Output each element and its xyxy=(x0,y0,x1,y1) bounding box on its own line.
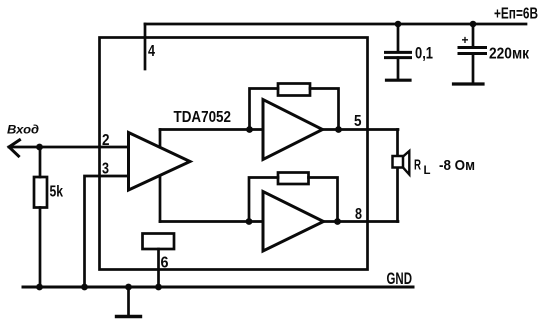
svg-text:4: 4 xyxy=(148,43,155,60)
svg-text:220мк: 220мк xyxy=(489,45,530,62)
pin 2 label xyxy=(102,132,110,149)
capacitor C2 ground bar xyxy=(454,82,484,85)
label 0,1 xyxy=(415,44,433,62)
capacitor C2 220uF lead xyxy=(472,24,475,47)
label TDA7052 xyxy=(174,109,232,126)
node rail junction R1 xyxy=(36,284,43,291)
pin 6 label xyxy=(161,255,169,272)
capacitor C2 plus sign xyxy=(462,33,469,47)
label 220mk xyxy=(489,45,530,62)
speaker LS1 box xyxy=(393,156,404,168)
label GND xyxy=(387,269,413,288)
pin 5 label xyxy=(354,113,362,130)
svg-text:+: + xyxy=(462,33,469,47)
resistor bottom feedback body xyxy=(278,173,309,185)
capacitor C1 lower lead xyxy=(397,58,400,79)
pin 4 label xyxy=(148,43,155,60)
resistor top feedback body xyxy=(278,84,310,96)
wire internal split vertical xyxy=(159,130,162,222)
capacitor C1 0.1 lead xyxy=(397,24,400,52)
feedback resistor bottom loop wire left xyxy=(249,178,278,222)
wire top internal to pin 5 xyxy=(160,128,398,131)
wire input pin 2 xyxy=(9,146,129,149)
svg-text:+Еп=6В: +Еп=6В xyxy=(494,6,538,23)
wire bottom internal to pin 8 xyxy=(160,220,398,223)
node top amp output junction xyxy=(335,126,342,133)
wire speaker to pin 8 xyxy=(396,168,399,222)
svg-text:5: 5 xyxy=(354,113,362,130)
pin 3 label xyxy=(102,161,109,178)
svg-text:8: 8 xyxy=(355,206,362,223)
pin 4 stub wire xyxy=(144,24,147,69)
svg-text:0,1: 0,1 xyxy=(415,44,433,62)
node rail junction pin3 xyxy=(81,284,88,291)
feedback resistor top loop wire left xyxy=(250,89,279,130)
capacitor C1 plates xyxy=(386,51,411,54)
node top amp input junction xyxy=(246,126,253,133)
feedback resistor bottom loop wire right xyxy=(309,178,338,222)
svg-text:6: 6 xyxy=(161,255,169,272)
wire pin 6 xyxy=(157,249,160,287)
wire ground bottom rail xyxy=(23,286,413,289)
feedback resistor top loop wire right xyxy=(310,89,339,130)
bias block pin 6 body xyxy=(143,234,175,250)
node rail junction pin6 xyxy=(155,284,162,291)
op-amp bottom power amp triangle xyxy=(263,192,324,252)
speaker LS1 horn xyxy=(403,151,409,175)
resistor R1 lower lead xyxy=(39,208,42,288)
svg-text:3: 3 xyxy=(102,161,109,178)
svg-text:L: L xyxy=(424,163,431,177)
svg-text:5k: 5k xyxy=(50,184,64,201)
wire pin 3 xyxy=(85,176,129,287)
op-amp input driver triangle xyxy=(129,133,191,191)
label 5k xyxy=(50,184,64,201)
ground symbol bar xyxy=(117,315,141,318)
input arrow xyxy=(9,140,20,156)
resistor R1 5k lead xyxy=(39,147,42,177)
wire +supply top rail xyxy=(145,23,526,26)
label Vkhod input xyxy=(7,123,39,137)
node bottom amp output junction xyxy=(334,218,341,225)
wire pin 5 to speaker xyxy=(396,130,399,157)
node rail junction ground xyxy=(125,284,132,291)
svg-text:-8 Ом: -8 Ом xyxy=(439,157,475,174)
node supply junction C1 xyxy=(395,21,402,28)
pin 8 label xyxy=(355,206,362,223)
svg-text:2: 2 xyxy=(102,132,110,149)
svg-text:R: R xyxy=(414,157,421,174)
svg-text:TDA7052: TDA7052 xyxy=(174,109,232,126)
ground symbol stem xyxy=(127,287,130,316)
label +En=6V xyxy=(494,6,538,23)
node supply junction C2 xyxy=(470,21,477,28)
label RL=8 Om xyxy=(414,157,475,178)
svg-text:Вход: Вход xyxy=(7,123,39,137)
node input junction xyxy=(36,144,43,151)
capacitor C2 lower lead xyxy=(472,54,475,84)
capacitor C1 ground bar xyxy=(387,79,411,82)
svg-text:GND: GND xyxy=(387,269,413,288)
capacitor C2 plates xyxy=(459,46,486,49)
resistor R1 5k body xyxy=(34,177,47,208)
op-amp U1 IC box TDA7052 xyxy=(100,38,368,270)
node bottom amp input junction xyxy=(246,218,253,225)
op-amp top power amp triangle xyxy=(263,100,323,160)
